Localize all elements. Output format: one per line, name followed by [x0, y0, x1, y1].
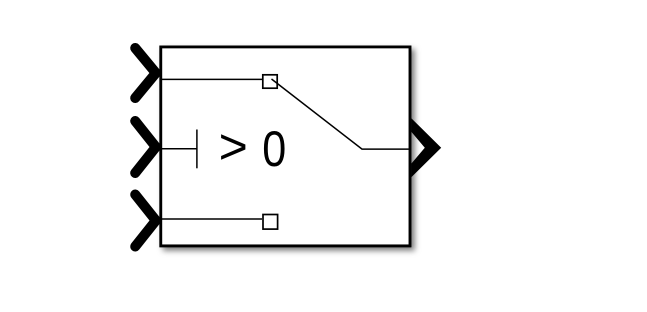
- svg-text:>: >: [219, 118, 248, 174]
- svg-text:0: 0: [262, 121, 286, 177]
